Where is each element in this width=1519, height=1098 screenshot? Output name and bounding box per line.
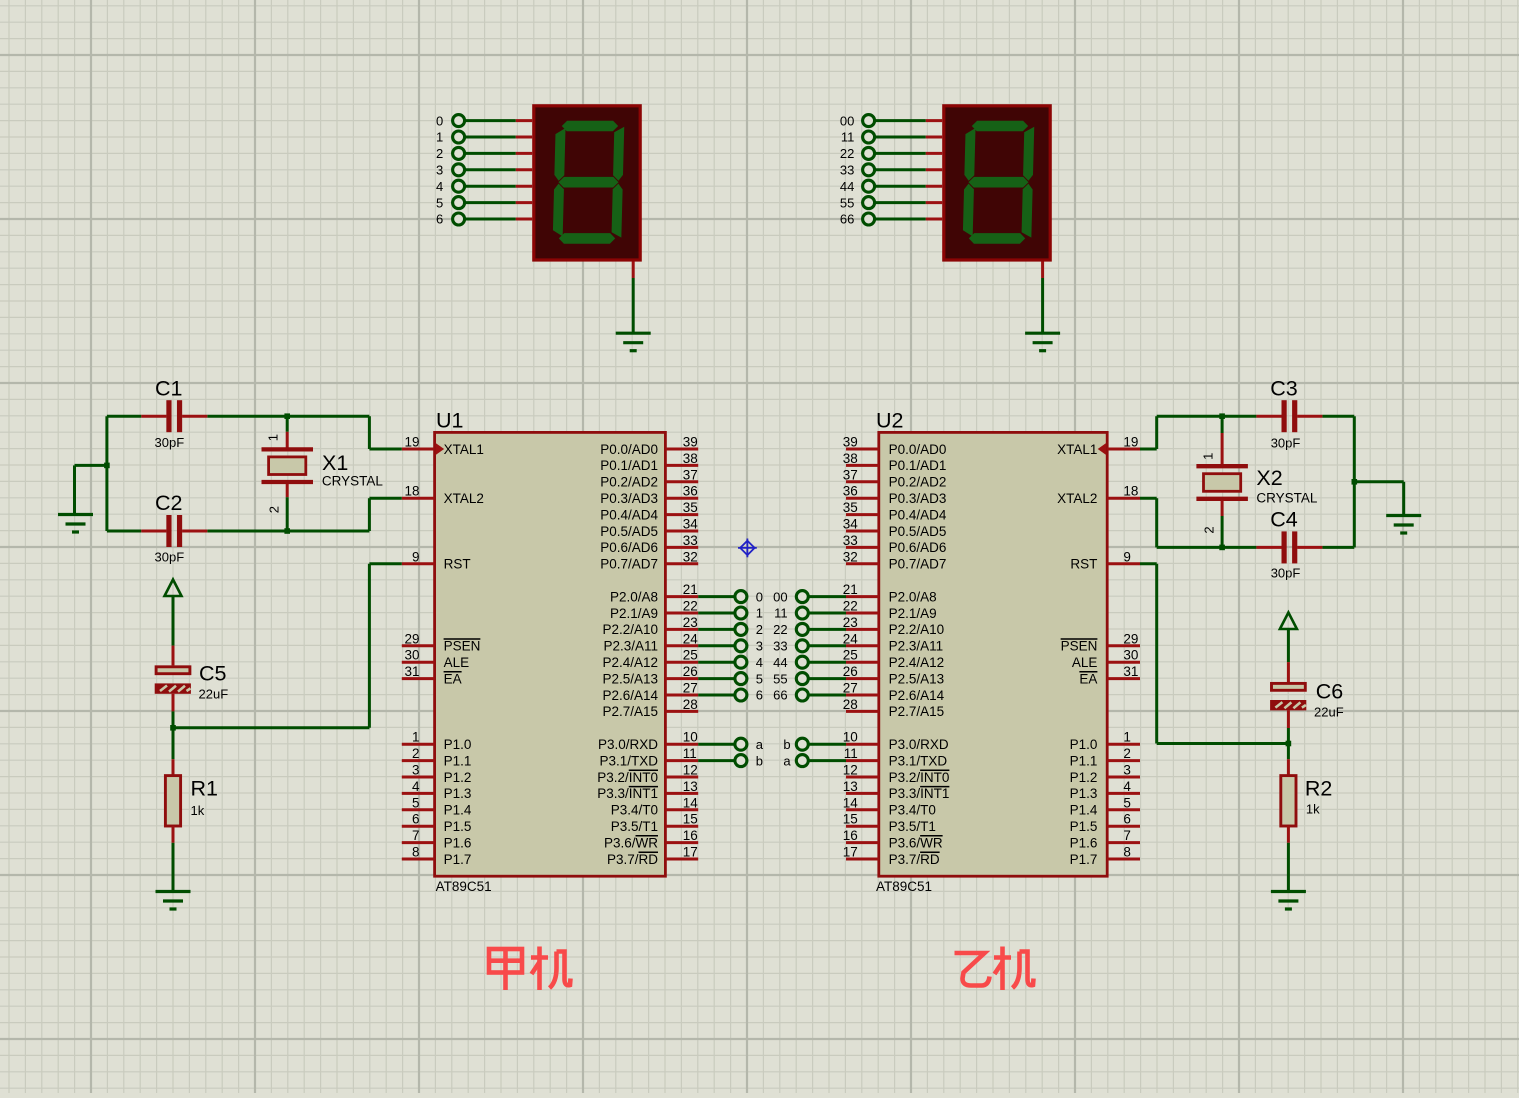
svg-text:P1.3: P1.3: [1070, 786, 1098, 801]
svg-text:P0.2/AD2: P0.2/AD2: [889, 475, 947, 490]
svg-text:P2.3/A11: P2.3/A11: [889, 639, 944, 654]
svg-text:AT89C51: AT89C51: [876, 879, 932, 894]
svg-text:6: 6: [756, 688, 763, 703]
U1 pin 5 (P1.4): [402, 795, 472, 817]
svg-text:P0.7/AD7: P0.7/AD7: [889, 557, 947, 572]
svg-text:PSEN: PSEN: [1061, 639, 1098, 654]
svg-text:P1.6: P1.6: [1070, 835, 1098, 850]
U2 pin 28 (P2.7/A15): [843, 697, 944, 719]
svg-text:28: 28: [843, 697, 858, 712]
terminal 33 wire to U2 P2.3: [796, 640, 846, 652]
U1 pin 16 (P3.6/WR): [604, 828, 698, 850]
svg-text:8: 8: [1123, 845, 1131, 860]
svg-text:5: 5: [436, 195, 443, 210]
crystal X2: [1196, 416, 1318, 547]
terminal 22 wire to U2 P2.2: [796, 623, 846, 635]
svg-text:P0.5/AD5: P0.5/AD5: [889, 524, 947, 539]
svg-text:00: 00: [840, 113, 854, 128]
svg-text:12: 12: [843, 763, 858, 778]
svg-text:11: 11: [774, 606, 788, 621]
svg-text:ALE: ALE: [1072, 655, 1098, 670]
svg-text:C6: C6: [1316, 679, 1344, 703]
U2 pin 15 (P3.5/T1): [843, 812, 936, 834]
svg-text:26: 26: [683, 664, 698, 679]
U1 pin 35 (P0.4/AD4): [600, 500, 698, 522]
svg-text:b: b: [783, 737, 790, 752]
svg-text:22uF: 22uF: [199, 687, 229, 702]
U2 pin 13 (P3.3/INT1): [843, 779, 950, 801]
svg-text:P3.4/T0: P3.4/T0: [611, 803, 658, 818]
U2 pin 27 (P2.6/A14): [843, 681, 945, 703]
U1 pin 8 (P1.7): [402, 845, 472, 867]
U2 pin 32 (P0.7/AD7): [843, 549, 947, 571]
U1 pin 3 (P1.2): [402, 763, 472, 785]
wire U1 P2.0 to terminal 0: [698, 591, 747, 603]
svg-text:16: 16: [843, 828, 858, 843]
node junction right rail: [1352, 479, 1358, 485]
wire to DS1 segment 5: [453, 197, 533, 209]
svg-text:22: 22: [773, 622, 787, 637]
svg-text:U1: U1: [436, 408, 463, 432]
svg-text:X1: X1: [322, 451, 348, 475]
U2 pin 9 (RST): [1070, 549, 1140, 571]
svg-text:P3.0/RXD: P3.0/RXD: [889, 737, 949, 752]
U1 pin 33 (P0.6/AD6): [600, 533, 698, 555]
svg-text:P3.3/INT1: P3.3/INT1: [889, 786, 950, 801]
svg-text:44: 44: [773, 655, 787, 670]
svg-text:14: 14: [843, 795, 859, 810]
svg-text:24: 24: [683, 631, 699, 646]
U2 pin 26 (P2.5/A13): [843, 664, 944, 686]
svg-text:34: 34: [843, 517, 859, 532]
svg-text:P1.0: P1.0: [444, 737, 472, 752]
svg-text:XTAL1: XTAL1: [444, 442, 484, 457]
U2 pin 4 (P1.3): [1070, 779, 1140, 801]
wire DS2 to ground: [1041, 261, 1044, 333]
svg-text:P3.6/WR: P3.6/WR: [604, 835, 658, 850]
svg-text:P2.2/A10: P2.2/A10: [602, 622, 658, 637]
svg-text:PSEN: PSEN: [444, 639, 481, 654]
wire U1 P2.1 to terminal 1: [698, 607, 747, 619]
svg-text:P0.4/AD4: P0.4/AD4: [600, 507, 658, 522]
svg-text:33: 33: [683, 533, 698, 548]
U2 pin 21 (P2.0/A8): [843, 582, 937, 604]
wire to DS1 segment 3: [453, 164, 533, 176]
U2 pin 31 (EA): [1079, 664, 1140, 686]
svg-text:55: 55: [840, 195, 854, 210]
wire RST net left: [173, 564, 402, 728]
wire C3 row net: [1140, 416, 1354, 547]
wire U1 P2.5 to terminal 5: [698, 673, 747, 685]
svg-text:29: 29: [404, 631, 419, 646]
U1 pin 32 (P0.7/AD7): [600, 549, 698, 571]
capacitor C5 22uF: [155, 646, 228, 728]
svg-text:CRYSTAL: CRYSTAL: [322, 474, 384, 489]
svg-text:21: 21: [843, 582, 858, 597]
svg-text:3: 3: [412, 763, 420, 778]
svg-text:P3.5/T1: P3.5/T1: [611, 819, 658, 834]
U2 pin 1 (P1.0): [1070, 730, 1140, 752]
U1 pin 13 (P3.3/INT1): [597, 779, 698, 801]
U2 pin 22 (P2.1/A9): [843, 599, 937, 621]
svg-text:5: 5: [412, 795, 420, 810]
svg-text:P2.5/A13: P2.5/A13: [602, 671, 658, 686]
svg-text:ALE: ALE: [444, 655, 470, 670]
U1 pin 11 (P3.1/TXD): [599, 746, 698, 768]
svg-text:11: 11: [841, 130, 855, 145]
resistor R1 1k: [165, 728, 218, 891]
U2 pin 19 (XTAL1): [1057, 435, 1140, 457]
U2 pin 16 (P3.6/WR): [843, 828, 943, 850]
svg-text:7: 7: [1123, 828, 1131, 843]
node junction crystal X2 top: [1219, 413, 1225, 419]
U2 pin 18 (XTAL2): [1057, 484, 1140, 506]
ground left oscillator: [58, 515, 93, 533]
U1 pin 19 (XTAL1): [402, 435, 484, 457]
svg-text:P3.5/T1: P3.5/T1: [889, 819, 936, 834]
U1 pin 27 (P2.6/A14): [602, 681, 698, 703]
U1 pin 18 (XTAL2): [402, 484, 484, 506]
svg-text:13: 13: [683, 779, 698, 794]
svg-text:P0.3/AD3: P0.3/AD3: [600, 491, 658, 506]
U2 pin 37 (P0.2/AD2): [843, 467, 947, 489]
svg-text:2: 2: [756, 622, 763, 637]
svg-text:33: 33: [773, 639, 787, 654]
svg-text:P0.3/AD3: P0.3/AD3: [889, 491, 947, 506]
wire DS1 to ground: [632, 261, 635, 333]
capacitor C1: [141, 377, 207, 450]
svg-text:16: 16: [683, 828, 698, 843]
svg-text:P0.6/AD6: P0.6/AD6: [600, 540, 658, 555]
U1 pin 24 (P2.3/A11): [603, 631, 698, 653]
svg-text:P2.1/A9: P2.1/A9: [610, 606, 658, 621]
U2 pin 3 (P1.2): [1070, 763, 1140, 785]
svg-text:2: 2: [436, 146, 443, 161]
svg-text:P2.6/A14: P2.6/A14: [602, 688, 658, 703]
svg-text:1k: 1k: [191, 803, 205, 818]
wire U1 P3.0 to terminal a: [698, 738, 747, 750]
svg-text:P3.0/RXD: P3.0/RXD: [598, 737, 658, 752]
svg-text:37: 37: [683, 467, 698, 482]
svg-text:P1.1: P1.1: [1070, 753, 1098, 768]
wire U1 P3.1 to terminal b: [698, 755, 747, 767]
svg-text:30: 30: [1123, 648, 1138, 663]
terminal 66 wire to U2 P2.6: [796, 689, 846, 701]
svg-text:15: 15: [683, 812, 698, 827]
svg-text:30pF: 30pF: [155, 435, 185, 450]
svg-text:P2.4/A12: P2.4/A12: [602, 655, 658, 670]
svg-text:P1.5: P1.5: [1070, 819, 1098, 834]
U2 pin 23 (P2.2/A10): [843, 615, 944, 637]
svg-text:P0.0/AD0: P0.0/AD0: [889, 442, 947, 457]
svg-text:X2: X2: [1256, 466, 1282, 490]
svg-text:21: 21: [683, 582, 698, 597]
U2 pin 12 (P3.2/INT0): [843, 763, 950, 785]
svg-text:P0.1/AD1: P0.1/AD1: [600, 458, 658, 473]
svg-text:P3.2/INT0: P3.2/INT0: [889, 770, 950, 785]
U2 pin 2 (P1.1): [1070, 746, 1140, 768]
U1 pin 26 (P2.5/A13): [602, 664, 698, 686]
svg-text:18: 18: [404, 484, 419, 499]
svg-text:1: 1: [1123, 730, 1131, 745]
svg-text:19: 19: [404, 435, 419, 450]
wire to DS2 segment 11: [863, 131, 943, 143]
svg-text:C3: C3: [1270, 377, 1298, 401]
wire U1 P2.2 to terminal 2: [698, 623, 747, 635]
svg-text:34: 34: [683, 517, 699, 532]
svg-text:25: 25: [683, 648, 698, 663]
svg-text:9: 9: [1123, 549, 1131, 564]
U2 pin 39 (P0.0/AD0): [843, 435, 947, 457]
U1 pin 14 (P3.4/T0): [611, 795, 698, 817]
wire to DS2 segment 00: [863, 115, 943, 127]
svg-text:32: 32: [843, 549, 858, 564]
U2 pin 7 (P1.6): [1070, 828, 1140, 850]
U1 pin 38 (P0.1/AD1): [600, 451, 698, 473]
wire left vertical C1-C2: [105, 416, 108, 531]
U2 pin 11 (P3.1/TXD): [844, 746, 948, 768]
svg-text:P2.7/A15: P2.7/A15: [889, 704, 945, 719]
U1 pin 29 (PSEN): [402, 631, 481, 653]
U1 pin 6 (P1.5): [402, 812, 472, 834]
svg-text:14: 14: [683, 795, 699, 810]
U1 pin 12 (P3.2/INT0): [597, 763, 698, 785]
terminal 00 wire to U2 P2.0: [796, 591, 846, 603]
svg-text:P1.6: P1.6: [444, 835, 472, 850]
svg-text:27: 27: [683, 681, 698, 696]
U1 pin 34 (P0.5/AD5): [600, 517, 698, 539]
svg-text:P1.0: P1.0: [1070, 737, 1098, 752]
7-segment display DS1: [534, 106, 640, 260]
svg-text:1: 1: [1201, 453, 1216, 460]
svg-text:37: 37: [843, 467, 858, 482]
U2 pin 25 (P2.4/A12): [843, 648, 944, 670]
svg-text:4: 4: [436, 179, 443, 194]
svg-text:1: 1: [436, 130, 443, 145]
svg-text:35: 35: [843, 500, 858, 515]
terminal 44 wire to U2 P2.4: [796, 656, 846, 668]
svg-text:P2.2/A10: P2.2/A10: [889, 622, 945, 637]
svg-text:55: 55: [773, 671, 787, 686]
wire to DS2 segment 66: [863, 213, 943, 225]
node junction RST/R2: [1286, 741, 1292, 747]
U1 pin 9 (RST): [402, 549, 471, 571]
svg-text:27: 27: [843, 681, 858, 696]
U2 pin 24 (P2.3/A11): [843, 631, 943, 653]
svg-text:C5: C5: [199, 661, 227, 685]
op-amp U2 (AT89C51 MCU): [876, 408, 1107, 894]
svg-text:R1: R1: [191, 776, 218, 800]
svg-text:P2.3/A11: P2.3/A11: [603, 639, 658, 654]
svg-text:29: 29: [1123, 631, 1138, 646]
svg-text:9: 9: [412, 549, 420, 564]
svg-text:11: 11: [683, 746, 697, 761]
svg-text:31: 31: [404, 664, 419, 679]
svg-text:P2.6/A14: P2.6/A14: [889, 688, 945, 703]
U1 pin 30 (ALE): [402, 648, 469, 670]
svg-text:5: 5: [756, 671, 763, 686]
svg-text:P2.5/A13: P2.5/A13: [889, 671, 945, 686]
U2 pin 8 (P1.7): [1070, 845, 1140, 867]
svg-text:8: 8: [412, 845, 420, 860]
svg-text:23: 23: [843, 615, 858, 630]
svg-text:10: 10: [683, 730, 698, 745]
U1 pin 31 (EA): [402, 664, 462, 686]
U1 pin 23 (P2.2/A10): [602, 615, 698, 637]
wire to DS1 segment 1: [453, 131, 533, 143]
svg-text:EA: EA: [1079, 671, 1097, 686]
svg-text:P3.7/RD: P3.7/RD: [607, 852, 658, 867]
svg-text:2: 2: [412, 746, 420, 761]
svg-text:P1.1: P1.1: [444, 753, 472, 768]
svg-text:P3.7/RD: P3.7/RD: [889, 852, 940, 867]
svg-text:P3.4/T0: P3.4/T0: [889, 803, 936, 818]
U1 pin 15 (P3.5/T1): [611, 812, 698, 834]
svg-text:a: a: [783, 753, 791, 768]
svg-text:17: 17: [843, 845, 858, 860]
wire U1 P2.3 to terminal 3: [698, 640, 747, 652]
svg-text:30pF: 30pF: [1271, 436, 1301, 451]
svg-text:P3.2/INT0: P3.2/INT0: [597, 770, 658, 785]
svg-text:6: 6: [436, 212, 443, 227]
svg-text:XTAL2: XTAL2: [1057, 491, 1097, 506]
ground below DS2: [1025, 333, 1060, 351]
terminal 11 wire to U2 P2.1: [796, 607, 846, 619]
U2 pin 30 (ALE): [1072, 648, 1140, 670]
svg-text:66: 66: [840, 212, 854, 227]
svg-text:26: 26: [843, 664, 858, 679]
U1 pin 22 (P2.1/A9): [610, 599, 698, 621]
svg-text:1: 1: [266, 434, 281, 441]
capacitor C2: [141, 491, 207, 564]
svg-text:33: 33: [843, 533, 858, 548]
wire to DS1 segment 6: [453, 213, 533, 225]
U1 pin 21 (P2.0/A8): [610, 582, 698, 604]
svg-text:4: 4: [756, 655, 763, 670]
U2 pin 29 (PSEN): [1061, 631, 1140, 653]
svg-text:6: 6: [412, 812, 420, 827]
svg-text:P1.7: P1.7: [1070, 852, 1098, 867]
wire to DS1 segment 4: [453, 180, 533, 192]
wire to DS1 segment 2: [453, 147, 533, 159]
U2 pin 38 (P0.1/AD1): [843, 451, 947, 473]
U2 pin 17 (P3.7/RD): [843, 845, 940, 867]
svg-text:4: 4: [412, 779, 420, 794]
svg-text:1: 1: [412, 730, 420, 745]
svg-text:25: 25: [843, 648, 858, 663]
resistor R2 1k: [1281, 744, 1333, 892]
node junction crystal bottom: [284, 528, 290, 534]
svg-text:10: 10: [843, 730, 858, 745]
svg-text:b: b: [756, 753, 763, 768]
svg-text:1k: 1k: [1306, 802, 1320, 817]
svg-text:0: 0: [756, 589, 763, 604]
U1 pin 28 (P2.7/A15): [602, 697, 698, 719]
svg-text:RST: RST: [444, 557, 471, 572]
label 乙机 (Machine B): [955, 947, 1034, 991]
svg-text:P0.2/AD2: P0.2/AD2: [600, 475, 658, 490]
capacitor C6 22uF: [1270, 662, 1344, 743]
svg-text:32: 32: [683, 549, 698, 564]
svg-text:2: 2: [1202, 526, 1217, 533]
svg-text:P3.1/TXD: P3.1/TXD: [889, 753, 948, 768]
svg-text:38: 38: [683, 451, 698, 466]
svg-text:XTAL1: XTAL1: [1057, 442, 1097, 457]
svg-text:a: a: [756, 737, 764, 752]
svg-text:44: 44: [840, 179, 854, 194]
svg-text:35: 35: [683, 500, 698, 515]
label 甲机 (Machine A): [489, 947, 571, 991]
svg-text:00: 00: [773, 589, 787, 604]
svg-text:XTAL2: XTAL2: [444, 491, 484, 506]
svg-text:30: 30: [404, 648, 419, 663]
svg-text:U2: U2: [876, 408, 903, 432]
U1 pin 39 (P0.0/AD0): [600, 435, 698, 457]
U1 pin 36 (P0.3/AD3): [600, 484, 698, 506]
7-segment display DS2: [944, 106, 1050, 260]
U2 pin 35 (P0.4/AD4): [843, 500, 947, 522]
svg-text:7: 7: [412, 828, 420, 843]
node junction crystal X2 bottom: [1219, 545, 1225, 551]
svg-text:P1.2: P1.2: [1070, 770, 1098, 785]
wire U1 P2.4 to terminal 4: [698, 656, 747, 668]
capacitor C3: [1256, 377, 1322, 451]
wire to DS1 segment 0: [453, 115, 533, 127]
svg-text:22: 22: [843, 599, 858, 614]
svg-text:P0.0/AD0: P0.0/AD0: [600, 442, 658, 457]
svg-text:15: 15: [843, 812, 858, 827]
svg-text:39: 39: [843, 435, 858, 450]
svg-text:P1.4: P1.4: [1070, 803, 1098, 818]
U1 pin 17 (P3.7/RD): [607, 845, 698, 867]
U2 pin 5 (P1.4): [1070, 795, 1140, 817]
svg-text:38: 38: [843, 451, 858, 466]
terminal wire to U2 P3.1: [796, 755, 846, 767]
svg-text:P2.0/A8: P2.0/A8: [889, 589, 937, 604]
U1 pin 4 (P1.3): [402, 779, 472, 801]
svg-text:66: 66: [773, 688, 787, 703]
svg-text:AT89C51: AT89C51: [436, 879, 492, 894]
op-amp U1 (AT89C51 MCU): [435, 408, 666, 894]
svg-text:3: 3: [1123, 763, 1131, 778]
ground right oscillator: [1386, 516, 1421, 534]
svg-text:P1.5: P1.5: [444, 819, 472, 834]
svg-text:31: 31: [1123, 664, 1138, 679]
svg-text:2: 2: [267, 506, 282, 513]
svg-text:P0.5/AD5: P0.5/AD5: [600, 524, 658, 539]
node junction crystal top: [284, 413, 290, 419]
svg-text:33: 33: [840, 163, 854, 178]
power terminal (VCC) right: [1280, 613, 1297, 663]
svg-text:3: 3: [756, 639, 763, 654]
U2 pin 14 (P3.4/T0): [843, 795, 936, 817]
svg-text:P2.7/A15: P2.7/A15: [602, 704, 658, 719]
wire to left ground: [75, 465, 107, 514]
svg-text:22: 22: [840, 146, 854, 161]
wire C1 row net: [107, 416, 402, 449]
svg-text:22uF: 22uF: [1314, 704, 1344, 719]
svg-text:24: 24: [843, 631, 859, 646]
svg-text:13: 13: [843, 779, 858, 794]
svg-text:P2.4/A12: P2.4/A12: [889, 655, 945, 670]
svg-text:P1.2: P1.2: [444, 770, 472, 785]
svg-text:P3.1/TXD: P3.1/TXD: [599, 753, 658, 768]
svg-text:EA: EA: [444, 671, 462, 686]
svg-text:36: 36: [843, 484, 858, 499]
wire to right ground: [1354, 482, 1403, 515]
svg-text:39: 39: [683, 435, 698, 450]
svg-text:1: 1: [756, 606, 763, 621]
